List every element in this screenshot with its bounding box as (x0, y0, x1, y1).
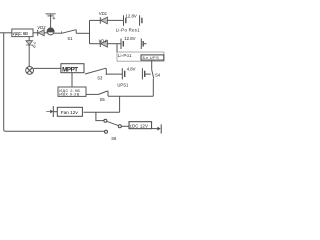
diode VD4 (99, 41, 101, 48)
wire lamp to MPPT (34, 67, 61, 69)
negative rail wire (108, 95, 153, 97)
switch S6 (104, 119, 121, 133)
wire row1 (90, 19, 101, 21)
svg-text:VD3: VD3 (37, 25, 46, 30)
wire drop to fan row (119, 96, 121, 112)
converter box U4 (129, 122, 152, 129)
zener diode VD2 (26, 37, 34, 67)
wire drop to switch S6 (96, 112, 104, 120)
fan box M1 (57, 107, 82, 116)
converter box U2 (12, 29, 33, 37)
bottom rail wire (6, 130, 105, 132)
converter box U3 (58, 87, 86, 96)
wire riser S4 to rail (152, 79, 154, 96)
photocell BL1 (46, 14, 56, 35)
svg-text:Fan 12v: Fan 12v (61, 110, 79, 116)
svg-text:12.8V: 12.8V (126, 13, 137, 18)
wire (107, 43, 121, 45)
svg-text:S3: S3 (97, 75, 103, 80)
wire (106, 73, 122, 75)
wire input left (0, 32, 12, 34)
svg-text:±DC 12V: ±DC 12V (130, 123, 148, 128)
left rail wire (4, 33, 6, 132)
wire MPPT down (71, 73, 73, 87)
svg-text:ИВХ 9-2В: ИВХ 9-2В (59, 93, 80, 97)
svg-text:UPS1: UPS1 (117, 82, 129, 87)
switch S4 (152, 70, 154, 79)
svg-text:12.8V: 12.8V (124, 36, 135, 41)
wire stub to fan box (53, 111, 57, 113)
wire output (152, 128, 158, 130)
wire (107, 19, 123, 21)
switch S1 (60, 31, 62, 33)
Li-Po1 enclosure box (117, 52, 164, 61)
wire row2 (90, 43, 101, 45)
MPPT controller box (61, 64, 84, 73)
diode VD1 (99, 17, 101, 24)
svg-text:S5: S5 (100, 97, 106, 102)
wire (33, 32, 38, 34)
svg-text:Li-Po Res1: Li-Po Res1 (116, 28, 140, 33)
lamp HL1 (26, 67, 34, 75)
wire (121, 125, 129, 127)
svg-text:VD1: VD1 (99, 11, 107, 16)
wire (44, 32, 47, 34)
connector X2 arrow (157, 127, 160, 131)
wire (143, 43, 146, 45)
battery GB2 12.8V (121, 39, 143, 50)
svg-text:Бл UPS: Бл UPS (143, 56, 160, 60)
connector X1 arrow (46, 111, 50, 113)
svg-text:2: 2 (34, 45, 36, 49)
switch S5 (99, 91, 108, 95)
wire (76, 32, 89, 34)
svg-text:VD4: VD4 (98, 38, 107, 43)
wire stub into enclosure (116, 44, 118, 52)
svg-text:S4: S4 (155, 73, 161, 78)
wire (54, 32, 61, 34)
svg-text:Li-Po1: Li-Po1 (118, 53, 132, 58)
svg-text:S1: S1 (67, 36, 73, 41)
battery UPS1 4.8V (122, 68, 144, 79)
UPS unit box (141, 55, 164, 60)
svg-text:S6: S6 (111, 136, 117, 141)
node junction wire (89, 20, 91, 43)
wire (145, 73, 151, 75)
svg-text:4.8V: 4.8V (127, 67, 136, 72)
svg-text:ИДС 6В: ИДС 6В (13, 31, 29, 36)
svg-text:MPPT: MPPT (62, 66, 78, 73)
wire fan row (84, 111, 120, 113)
battery GB1 12.8V (124, 15, 142, 26)
diode VD3 (37, 30, 39, 36)
switch S3 (85, 68, 106, 74)
wire from UPS unit down (151, 60, 153, 70)
wire (86, 93, 99, 95)
